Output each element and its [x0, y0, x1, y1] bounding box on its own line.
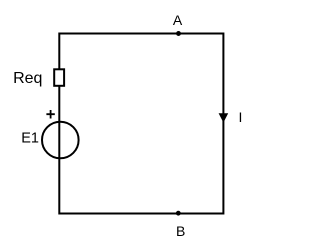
svg-text:Req: Req — [13, 70, 42, 87]
svg-text:E1: E1 — [21, 131, 39, 147]
svg-text:A: A — [173, 12, 183, 28]
svg-text:I: I — [239, 109, 243, 125]
svg-text:B: B — [176, 223, 185, 239]
